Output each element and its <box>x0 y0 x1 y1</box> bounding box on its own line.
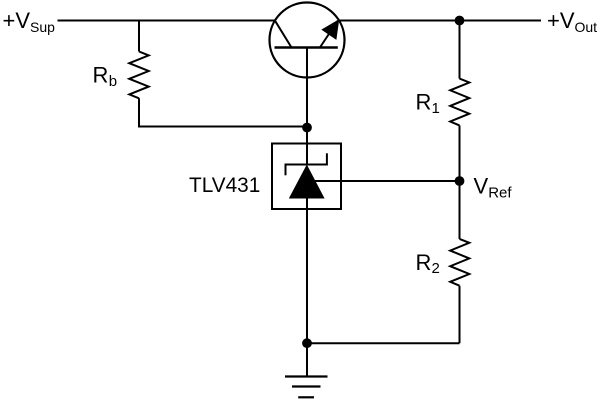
svg-text:2: 2 <box>432 260 440 277</box>
svg-text:+V: +V <box>3 8 31 33</box>
svg-text:b: b <box>109 73 117 90</box>
svg-text:+V: +V <box>547 8 575 33</box>
svg-text:R: R <box>416 250 432 275</box>
svg-text:V: V <box>474 174 489 199</box>
svg-text:Ref: Ref <box>488 185 512 202</box>
svg-text:R: R <box>93 63 109 88</box>
svg-text:Out: Out <box>575 19 598 35</box>
svg-text:R: R <box>416 89 432 114</box>
svg-text:Sup: Sup <box>30 19 55 35</box>
svg-text:1: 1 <box>432 100 440 117</box>
svg-text:TLV431: TLV431 <box>189 174 260 197</box>
